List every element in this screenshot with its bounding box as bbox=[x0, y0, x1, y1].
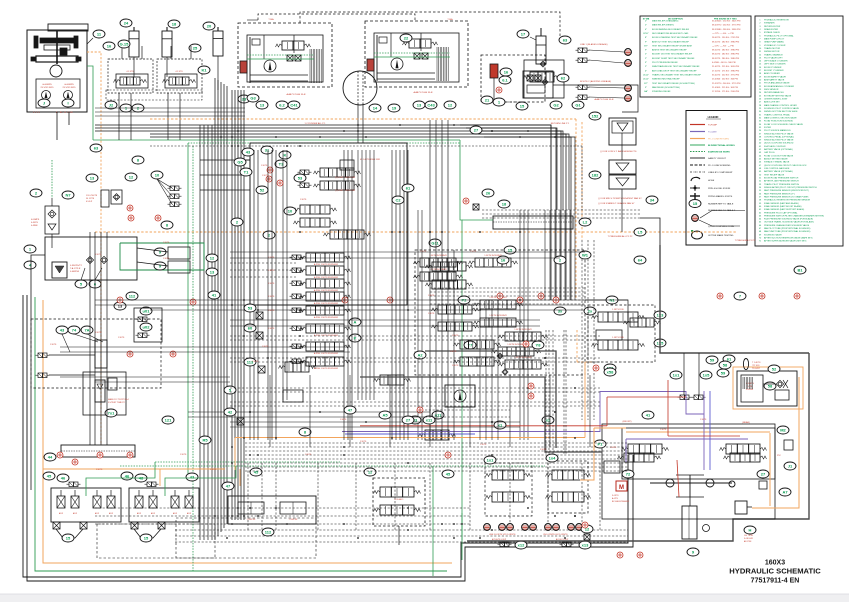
label 7 bbox=[734, 292, 746, 300]
svg-text:x1: x1 bbox=[498, 422, 503, 427]
long valve box bbox=[493, 216, 573, 229]
quick coupler 1 bbox=[484, 524, 491, 531]
svg-text:TEST SECONDARY RELIEF (SCH.SET: TEST SECONDARY RELIEF (SCH.SETTING) bbox=[652, 82, 695, 85]
test manifold box bbox=[523, 71, 553, 98]
svg-text:SWAYING NEUTRAL RELIEF: SWAYING NEUTRAL RELIEF bbox=[652, 78, 680, 81]
svg-text:(T) 1.5KTS 35/32-35/R: (T) 1.5KTS 35/32-35/R bbox=[335, 177, 356, 179]
travel motor group B dashed enclosure bbox=[365, 21, 468, 87]
label 58 bbox=[764, 382, 776, 390]
aux spool row at 460,340 bbox=[454, 340, 501, 349]
travel counterbalance row A bbox=[287, 55, 293, 61]
svg-text:HYDRAULIC RESERVOIR: HYDRAULIC RESERVOIR bbox=[764, 19, 789, 22]
svg-text:N7: N7 bbox=[65, 192, 71, 197]
svg-text:BOOM ARM ANGLE CYLINDER: BOOM ARM ANGLE CYLINDER bbox=[764, 85, 795, 88]
svg-text:QUICK COUPLING SOLENOID: QUICK COUPLING SOLENOID bbox=[764, 143, 794, 145]
svg-text:1.5KTS: 1.5KTS bbox=[268, 283, 275, 285]
test point r7 bbox=[517, 297, 523, 303]
svg-text:59: 59 bbox=[710, 357, 715, 362]
svg-text:TRAVEL CONTROL PEDAL: TRAVEL CONTROL PEDAL bbox=[764, 113, 791, 116]
svg-text:G.15: G.15 bbox=[120, 41, 129, 46]
bank3 spool a bbox=[238, 502, 264, 514]
wire green into bank1 bbox=[86, 462, 155, 496]
svg-text:R5: R5 bbox=[202, 437, 208, 442]
fan extra red bbox=[667, 380, 669, 436]
red coupler B2 bbox=[625, 95, 632, 102]
svg-text:SINGLE ACTING PILOT VALVE: SINGLE ACTING PILOT VALVE bbox=[764, 139, 794, 142]
label 61 bbox=[723, 355, 735, 363]
boom cylinder bbox=[213, 27, 223, 56]
svg-text:T.A.1/T2.R: T.A.1/T2.R bbox=[70, 267, 81, 270]
check diamond a bbox=[497, 353, 503, 359]
svg-text:6.1: 6.1 bbox=[502, 77, 508, 82]
svg-text:A-PRG 1.5KTS 35/32-B5/R: A-PRG 1.5KTS 35/32-B5/R bbox=[314, 302, 339, 305]
label 27 bbox=[757, 470, 769, 478]
label 47 bbox=[222, 482, 234, 490]
travel motor valves A bbox=[276, 41, 311, 50]
label 5b bbox=[224, 386, 236, 394]
svg-text:152: 152 bbox=[592, 113, 599, 118]
arm holding valve bbox=[592, 340, 645, 350]
label Y8 bbox=[532, 341, 544, 349]
label P bbox=[349, 334, 361, 342]
svg-text:1.5KTS: 1.5KTS bbox=[268, 328, 275, 330]
wire green pump bbox=[87, 66, 93, 140]
svg-text:A1/R: A1/R bbox=[109, 512, 114, 515]
wire long runs mid-band bbox=[230, 251, 585, 253]
svg-text:x12: x12 bbox=[518, 542, 525, 547]
svg-text:1.5KTS: 1.5KTS bbox=[180, 454, 187, 456]
steering unit bbox=[682, 506, 697, 539]
svg-text:FINAL SENSOR (FAST BOOST BLADE: FINAL SENSOR (FAST BOOST BLADE) bbox=[764, 205, 802, 208]
label x12 bbox=[515, 541, 527, 549]
label 24 bbox=[120, 19, 132, 27]
svg-text:ON D.JRS/TE LE2 D.JRS/TE: ON D.JRS/TE LE2 D.JRS/TE bbox=[543, 534, 568, 536]
control spool row L6 bbox=[290, 326, 304, 331]
svg-text:S-JRNF: S-JRNF bbox=[746, 389, 754, 391]
main valve row R7 bbox=[492, 347, 541, 356]
svg-text:CENTER SWIVEL JOINT: CENTER SWIVEL JOINT bbox=[764, 99, 788, 101]
gear pump J bbox=[42, 91, 51, 100]
svg-text:HOSE: HOSE bbox=[708, 180, 715, 182]
wire green into bank2 bbox=[165, 466, 236, 496]
svg-text:4.1 KTS: 4.1 KTS bbox=[175, 71, 183, 73]
svg-text:16: 16 bbox=[107, 43, 112, 48]
svg-text:BATTERY VALVE (OPTIONAL): BATTERY VALVE (OPTIONAL) bbox=[764, 170, 793, 173]
svg-text:L2: L2 bbox=[583, 219, 588, 224]
label 43 bbox=[56, 326, 68, 334]
svg-text:14: 14 bbox=[373, 105, 378, 110]
svg-text:41: 41 bbox=[212, 292, 217, 297]
check valves in reservoir bbox=[86, 256, 93, 263]
control spool row L3 bbox=[290, 281, 304, 286]
bypass check 12 bbox=[125, 173, 137, 181]
red coupler A1 bbox=[625, 49, 632, 56]
stab spool 1 bbox=[374, 487, 421, 497]
svg-text:FLOAT LOCK SOLENOID CHECK VALV: FLOAT LOCK SOLENOID CHECK VALVE bbox=[764, 123, 803, 126]
test point r9 bbox=[57, 452, 63, 458]
stabA spool1 bbox=[486, 470, 531, 480]
aux valve vertical bbox=[95, 340, 107, 368]
axle group outer bbox=[602, 424, 775, 519]
svg-text:SINGLE AFTER (PILOT CIRCUIT) P: SINGLE AFTER (PILOT CIRCUIT) PRESSURE SW… bbox=[764, 186, 817, 189]
coupler pair B bbox=[576, 85, 590, 90]
test point r12 bbox=[72, 459, 78, 465]
svg-text:1.5KTS 35/32-B5/R: 1.5KTS 35/32-B5/R bbox=[429, 255, 447, 257]
svg-text:B ARROW DE WORK: B ARROW DE WORK bbox=[708, 151, 730, 154]
label x1 bbox=[494, 421, 506, 429]
bank spool 4 bbox=[185, 496, 193, 508]
wire fan link top bbox=[553, 85, 638, 112]
svg-text:STRAINER: STRAINER bbox=[764, 22, 775, 25]
test point r10 bbox=[97, 452, 103, 458]
thick gray run A bbox=[425, 351, 556, 448]
svg-text:1.5KTS ROD: 1.5KTS ROD bbox=[612, 337, 624, 339]
label K1 bbox=[198, 66, 210, 74]
control spool row L4 bbox=[290, 294, 304, 299]
svg-text:15: 15 bbox=[144, 535, 149, 540]
red test point e bbox=[170, 351, 176, 357]
manifold bottom block bbox=[283, 390, 303, 402]
label 61x bbox=[402, 184, 414, 192]
test point r3 bbox=[342, 297, 348, 303]
svg-text:A1/R: A1/R bbox=[59, 512, 64, 515]
label 6.1 bbox=[499, 76, 511, 84]
svg-text:K1: K1 bbox=[201, 67, 207, 72]
filter 2 with diamond bbox=[30, 189, 42, 197]
wire stab drop bbox=[398, 526, 400, 545]
svg-text:21&2*: 21&2* bbox=[643, 74, 649, 76]
main valve row R4 bbox=[474, 300, 523, 309]
label jr bbox=[784, 462, 796, 470]
svg-text:SWA TRAVELING SD TEST SECONDAR: SWA TRAVELING SD TEST SECONDARY RELIEF bbox=[652, 65, 700, 68]
label 152 bbox=[589, 112, 601, 120]
label 9f bbox=[687, 548, 699, 556]
svg-text:A-PRG 1.5KTS 35/32-B5/R: A-PRG 1.5KTS 35/32-B5/R bbox=[314, 276, 339, 279]
svg-text:1.5KTS: 1.5KTS bbox=[540, 449, 547, 451]
label 52x bbox=[256, 186, 268, 194]
svg-text:64: 64 bbox=[638, 257, 643, 262]
svg-text:1.5KTS: 1.5KTS bbox=[340, 419, 347, 421]
svg-text:ARM CYLINDER: ARM CYLINDER bbox=[764, 72, 780, 75]
label N7 bbox=[62, 191, 74, 199]
label J2 bbox=[105, 101, 117, 109]
svg-text:21.0/305 : 215 KG : 305 PSI: 21.0/305 : 215 KG : 305 PSI bbox=[712, 87, 738, 89]
tank glyph red bbox=[490, 64, 498, 78]
label 9a bbox=[154, 248, 166, 256]
label 43x bbox=[242, 148, 254, 156]
label 41f bbox=[642, 411, 654, 419]
svg-text:47: 47 bbox=[226, 483, 231, 488]
safety valve group 16 dashed box bbox=[108, 59, 153, 93]
label 64 bbox=[634, 256, 646, 264]
svg-text:BUCKET DUMP TEST SECONDARY REL: BUCKET DUMP TEST SECONDARY RELIEF bbox=[652, 57, 695, 60]
svg-text:4x10MPS: 4x10MPS bbox=[64, 84, 74, 86]
coupler item 3 bbox=[168, 202, 182, 207]
svg-text:1.5KTS: 1.5KTS bbox=[50, 344, 57, 346]
label 44 bbox=[44, 453, 56, 461]
svg-text:STEADILY TRAVEL VALVE: STEADILY TRAVEL VALVE bbox=[764, 161, 790, 164]
dashed grid mid band bbox=[230, 335, 600, 337]
solenoid group box bbox=[126, 292, 138, 300]
svg-text:G5: G5 bbox=[237, 159, 243, 164]
svg-text:HYDRAULIC RESERVOIR PRESSURE S: HYDRAULIC RESERVOIR PRESSURE SENSOR bbox=[764, 199, 811, 202]
svg-text:T 1.4KTS: T 1.4KTS bbox=[752, 362, 761, 364]
bank spool 2 bbox=[149, 496, 157, 508]
legend box bbox=[686, 111, 747, 246]
label 1x1f bbox=[670, 371, 682, 379]
label T1x bbox=[240, 168, 252, 176]
svg-text:CAP PLUG: CAP PLUG bbox=[764, 151, 775, 154]
label 2b bbox=[263, 231, 275, 239]
svg-text:MAIN RELIEF (STANDARD): MAIN RELIEF (STANDARD) bbox=[652, 20, 679, 23]
svg-text:TRAVEL MOTOR: TRAVEL MOTOR bbox=[764, 47, 781, 50]
svg-text:BYPASS CHECK: BYPASS CHECK bbox=[764, 31, 781, 34]
wire blue fan bbox=[709, 391, 711, 470]
svg-text:52: 52 bbox=[772, 366, 777, 371]
green loop mid bbox=[120, 243, 204, 270]
svg-text:T1: T1 bbox=[244, 169, 249, 174]
svg-text:ANGLE SETTING VALVE: ANGLE SETTING VALVE bbox=[764, 158, 788, 161]
test point r2 bbox=[277, 180, 283, 186]
quick coupler 5 bbox=[530, 524, 537, 531]
label 1x4 bbox=[546, 454, 558, 462]
label B1 bbox=[794, 266, 806, 274]
coupler solenoid c2 bbox=[560, 542, 574, 547]
svg-text:9*: 9* bbox=[645, 50, 647, 52]
svg-text:4*: 4* bbox=[645, 29, 647, 31]
pressure settings table bbox=[640, 16, 751, 97]
label 45x bbox=[442, 470, 454, 478]
axle group inner bbox=[622, 428, 775, 479]
svg-text:27.5/275 : 275 KG : 3980 PSI: 27.5/275 : 275 KG : 3980 PSI bbox=[712, 70, 740, 72]
quick coupler 7 bbox=[553, 524, 560, 531]
svg-text:PITCH AND ANGLE VALVE: PITCH AND ANGLE VALVE bbox=[764, 82, 790, 85]
svg-text:A1/R: A1/R bbox=[137, 512, 142, 515]
corner bundle turns bbox=[460, 125, 551, 210]
label 23 bbox=[238, 95, 250, 103]
side cylinder bbox=[162, 27, 172, 57]
svg-text:15: 15 bbox=[693, 201, 698, 206]
svg-text:SWING MOTOR: SWING MOTOR bbox=[764, 51, 780, 53]
svg-text:ANTI LEAK DROP TEST SECONDARY: ANTI LEAK DROP TEST SECONDARY RELIEF bbox=[652, 69, 697, 72]
swing cross lines bbox=[479, 300, 481, 440]
svg-text:15: 15 bbox=[520, 103, 525, 108]
svg-text:1.5KTS: 1.5KTS bbox=[262, 346, 269, 348]
svg-text:M: M bbox=[619, 485, 624, 491]
svg-text:PILOT SOURCE MANIFOLD: PILOT SOURCE MANIFOLD bbox=[764, 129, 791, 132]
green drop L bbox=[187, 143, 189, 480]
label 63 bbox=[559, 36, 571, 44]
svg-text:M2: M2 bbox=[780, 427, 786, 432]
travel motor valves B bbox=[403, 39, 438, 48]
svg-text:FINAL SENSOR (FAST SUPPORT BLA: FINAL SENSOR (FAST SUPPORT BLADE) bbox=[764, 208, 805, 211]
test point r14 bbox=[582, 522, 588, 528]
spool row U1 bbox=[314, 168, 361, 177]
svg-text:17: 17 bbox=[521, 31, 526, 36]
label 18 bbox=[168, 20, 180, 28]
stabB spool1 bbox=[546, 470, 591, 480]
label 17 bbox=[517, 30, 529, 38]
svg-text:ARM IN TEST SECONDARY RELIEF: ARM IN TEST SECONDARY RELIEF bbox=[652, 49, 687, 52]
svg-text:BATTERY VALVE (OPTIONAL): BATTERY VALVE (OPTIONAL) bbox=[764, 148, 793, 151]
component list table bbox=[755, 16, 843, 246]
dashed drop box a bbox=[97, 524, 215, 558]
orange pilot bus dashed bbox=[150, 118, 576, 120]
svg-text:RETURN LINE P 1: RETURN LINE P 1 bbox=[551, 123, 570, 125]
svg-text:P=PUMP: P=PUMP bbox=[708, 125, 718, 127]
svg-text:1/G TS/TE: 1/G TS/TE bbox=[744, 535, 754, 537]
pilot control valve bank at x=129 bbox=[129, 488, 199, 522]
svg-text:0.4KPS: 0.4KPS bbox=[31, 222, 38, 224]
svg-text:LEFT BLADE CYLINDER: LEFT BLADE CYLINDER bbox=[764, 60, 788, 63]
top dashed rail bbox=[150, 145, 582, 147]
label 27b bbox=[470, 126, 482, 134]
svg-text:T10A: T10A bbox=[447, 18, 453, 21]
svg-text:A-PRG 1.5KTS 35/32-B5/R: A-PRG 1.5KTS 35/32-B5/R bbox=[314, 334, 339, 337]
wire orange into bank2 bbox=[239, 469, 241, 486]
svg-text:L5: L5 bbox=[638, 229, 643, 234]
svg-text:LINE 1 (BLADES LINKAGE): LINE 1 (BLADES LINKAGE) bbox=[580, 43, 608, 46]
wire mid horizontals bbox=[200, 159, 250, 161]
travel motor pump circle B bbox=[391, 58, 403, 70]
svg-text:x58: x58 bbox=[607, 369, 614, 374]
fan extra orange bbox=[580, 479, 594, 481]
svg-text:K: K bbox=[284, 152, 287, 157]
svg-text:J1: J1 bbox=[788, 463, 793, 468]
control spool row L1 bbox=[290, 255, 304, 260]
wire top link2 bbox=[300, 12, 560, 40]
svg-text:34: 34 bbox=[650, 197, 655, 202]
svg-text:BT*: BT* bbox=[644, 45, 648, 47]
bank spool 1 bbox=[135, 496, 143, 508]
svg-text:25 5/32-3525: 25 5/32-3525 bbox=[63, 87, 77, 89]
small block b bbox=[473, 204, 479, 210]
label G5x bbox=[234, 158, 246, 166]
coupler b bbox=[36, 373, 50, 378]
svg-text:A1/R: A1/R bbox=[173, 512, 178, 515]
svg-text:1 OSR /RF: 1 OSR /RF bbox=[247, 519, 257, 521]
cooler valve bbox=[775, 390, 789, 400]
test point r13 bbox=[117, 297, 123, 303]
quick coupler 9 bbox=[576, 524, 583, 531]
main valve row R2 bbox=[414, 272, 463, 281]
label 122 bbox=[604, 364, 616, 372]
orange long bus 2 bbox=[95, 231, 737, 233]
wire green travel pilot A bbox=[247, 54, 314, 56]
svg-text:25 5/32-3525: 25 5/32-3525 bbox=[41, 87, 55, 89]
cooler inner detail bbox=[741, 375, 763, 402]
svg-text:MAIN PUMP & PILOT: MAIN PUMP & PILOT bbox=[764, 37, 785, 40]
svg-text:1 OSR /RF: 1 OSR /RF bbox=[289, 519, 299, 521]
bank spool 3 bbox=[171, 496, 179, 508]
manifold vertical rails bbox=[282, 150, 284, 400]
label 12x bbox=[206, 254, 218, 262]
label 19 bbox=[388, 104, 400, 112]
main valve row R1 bbox=[414, 258, 463, 267]
control spool row L2 bbox=[290, 268, 304, 273]
svg-text:A AB73 70-B0 35-R: A AB73 70-B0 35-R bbox=[595, 98, 614, 101]
red coupler B1 bbox=[625, 85, 632, 92]
red test point d bbox=[190, 299, 196, 305]
svg-text:61: 61 bbox=[727, 356, 732, 361]
svg-text:AFTER SUCTION RESERVOIR VALVE: AFTER SUCTION RESERVOIR VALVE (SAFE SET) bbox=[764, 237, 813, 240]
quick coupler 6 bbox=[545, 524, 552, 531]
pilot filter group box bbox=[481, 55, 545, 102]
label 59 bbox=[717, 369, 729, 377]
label 13b bbox=[413, 101, 425, 109]
svg-text:G1: G1 bbox=[575, 102, 581, 107]
svg-text:PILOT VALVE LEFT: PILOT VALVE LEFT bbox=[764, 56, 783, 59]
svg-text:PI LO LINE RETURN: PI LO LINE RETURN bbox=[708, 139, 729, 141]
svg-text:2*: 2* bbox=[645, 21, 647, 23]
manifold inlet valve bbox=[340, 160, 354, 170]
svg-text:17.5/254 : 175 KG : 2540 PSI: 17.5/254 : 175 KG : 2540 PSI bbox=[712, 91, 740, 93]
svg-text:A-PRG 1.5KTS 35/32-B5/R: A-PRG 1.5KTS 35/32-B5/R bbox=[314, 367, 339, 370]
svg-text:21&2*: 21&2* bbox=[643, 79, 649, 81]
pump assembly drawing bbox=[31, 31, 81, 64]
axle differential bbox=[650, 482, 732, 484]
label 7A bbox=[81, 326, 93, 334]
svg-text:13: 13 bbox=[118, 303, 123, 308]
junction node dots bbox=[429, 231, 431, 233]
quick coupler 4 bbox=[522, 524, 529, 531]
steer item bbox=[759, 481, 767, 489]
right bank rails bbox=[417, 210, 419, 440]
gear pump I bbox=[64, 91, 73, 100]
label 11 bbox=[93, 30, 105, 38]
svg-text:4*: 4* bbox=[645, 70, 647, 72]
bank solenoid bbox=[145, 482, 159, 487]
legend line samples bbox=[690, 124, 705, 126]
svg-text:5.5/TEST TIME P2: 5.5/TEST TIME P2 bbox=[108, 402, 126, 404]
svg-text:1.5KTS: 1.5KTS bbox=[300, 199, 307, 201]
svg-text:DRAIN FILTER: DRAIN FILTER bbox=[764, 28, 779, 31]
label 16c bbox=[497, 256, 509, 264]
svg-text:PILOT PRESSURE RELIEF: PILOT PRESSURE RELIEF bbox=[652, 62, 679, 64]
tank symbol bbox=[52, 262, 67, 278]
svg-text:A AB73 70-B0 35-R: A AB73 70-B0 35-R bbox=[414, 91, 433, 94]
label 13a bbox=[256, 101, 268, 109]
wire purple fan bbox=[686, 391, 704, 414]
svg-text:A-PRG 1.5KTS 35/32-B5/R: A-PRG 1.5KTS 35/32-B5/R bbox=[314, 316, 339, 319]
svg-text:43: 43 bbox=[246, 149, 251, 154]
bank solenoid bbox=[67, 482, 81, 487]
svg-text:52: 52 bbox=[260, 187, 265, 192]
svg-text:PRESSURE SWITCH FILTER CHANGER: PRESSURE SWITCH FILTER CHANGER (STRAINER… bbox=[764, 214, 824, 217]
svg-text:0.4MPSF: 0.4MPSF bbox=[70, 271, 80, 273]
label 10b bbox=[284, 207, 296, 215]
svg-text:2*: 2* bbox=[645, 25, 647, 27]
control spool row L7 bbox=[290, 344, 304, 349]
label 121 bbox=[162, 416, 174, 424]
svg-text:38.0/3770 : 260 KG : 3770 PSI: 38.0/3770 : 260 KG : 3770 PSI bbox=[712, 25, 741, 27]
svg-text:1.5KTS 35/32-B5/R: 1.5KTS 35/32-B5/R bbox=[514, 329, 532, 331]
svg-text:4.0/580 : 40 KG : 580 PSI: 4.0/580 : 40 KG : 580 PSI bbox=[712, 62, 736, 64]
solenoid fan 10 bbox=[151, 171, 163, 179]
svg-text:72: 72 bbox=[626, 471, 631, 476]
wire orange perimeter bbox=[43, 300, 452, 563]
svg-text:1x1: 1x1 bbox=[673, 372, 680, 377]
svg-text:41: 41 bbox=[646, 412, 651, 417]
svg-text:1.5KTS: 1.5KTS bbox=[480, 444, 487, 446]
svg-text:10: 10 bbox=[155, 172, 160, 177]
svg-text:T10A: T10A bbox=[268, 18, 274, 21]
svg-text:1.5KTS: 1.5KTS bbox=[262, 175, 269, 177]
svg-text:MAIN CONTROL SECTION VALVE: MAIN CONTROL SECTION VALVE bbox=[764, 116, 797, 119]
label 182 bbox=[589, 171, 601, 179]
svg-text:1.5KTS: 1.5KTS bbox=[163, 258, 170, 260]
svg-text:FLAT FACE COUPLER: FLAT FACE COUPLER bbox=[764, 145, 786, 148]
